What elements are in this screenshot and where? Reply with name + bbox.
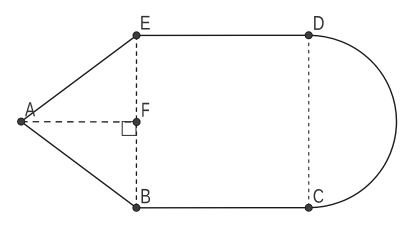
right angle marker at F xyxy=(122,122,136,136)
dashed segment DC xyxy=(308,35,310,207)
label B xyxy=(141,189,150,203)
label F xyxy=(142,103,149,117)
wire segment AB xyxy=(21,122,136,208)
node A xyxy=(18,118,25,125)
node C xyxy=(305,204,312,211)
node B xyxy=(133,204,140,211)
label D xyxy=(314,16,324,30)
dashed segment EB xyxy=(135,35,137,207)
label A xyxy=(25,102,35,116)
node E xyxy=(133,32,140,39)
arc DC semicircle xyxy=(309,35,397,207)
label C xyxy=(314,189,324,203)
wire segment ED xyxy=(137,34,309,36)
dashed segment AF xyxy=(21,121,137,123)
node D xyxy=(305,32,312,39)
label E xyxy=(141,16,150,30)
wire segment AE xyxy=(21,35,136,121)
node F xyxy=(133,118,140,125)
wire segment BC xyxy=(136,207,308,209)
